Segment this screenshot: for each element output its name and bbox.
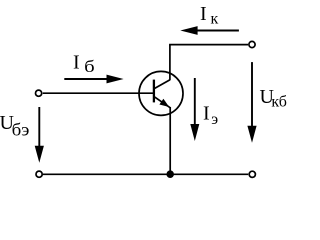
- terminal: bottom right (open circle): [249, 171, 255, 177]
- voltage arrow Ukb (collector-base, pointing down): [247, 62, 256, 143]
- svg-text:I: I: [200, 3, 207, 25]
- svg-text:б: б: [84, 58, 95, 77]
- wire: emitter vertical (transistor to bottom rail): [169, 107, 171, 174]
- transistor: base bar: [153, 80, 155, 103]
- terminal: base input (left, open circle): [36, 90, 42, 96]
- voltage arrow Ube (base-emitter, pointing down): [35, 107, 44, 163]
- svg-text:I: I: [73, 52, 80, 74]
- transistor: envelope circle: [139, 71, 183, 115]
- current arrow Ie (emitter current, pointing down): [190, 78, 199, 141]
- terminal: bottom left (open circle): [36, 171, 42, 177]
- terminal: collector output (top right, open circle): [249, 41, 255, 47]
- wire: top rail (to collector terminal): [169, 44, 248, 46]
- transistor: emitter lead (diagonal with NPN arrow): [154, 97, 170, 108]
- wire: collector vertical (transistor to top rail): [169, 45, 171, 81]
- current arrow Ib (base current, pointing right): [64, 75, 123, 84]
- svg-text:I: I: [203, 102, 210, 124]
- wire: bottom rail: [43, 173, 248, 175]
- current arrow Ik (collector current, pointing left): [180, 26, 239, 35]
- junction: emitter node on bottom rail (solid dot): [166, 170, 174, 178]
- transistor: collector lead (diagonal): [154, 80, 170, 89]
- wire: base lead (left terminal to transistor base bar): [43, 92, 153, 94]
- svg-text:кб: кб: [271, 94, 287, 111]
- svg-text:бэ: бэ: [12, 120, 30, 139]
- svg-text:к: к: [211, 11, 219, 28]
- svg-text:э: э: [211, 111, 218, 128]
